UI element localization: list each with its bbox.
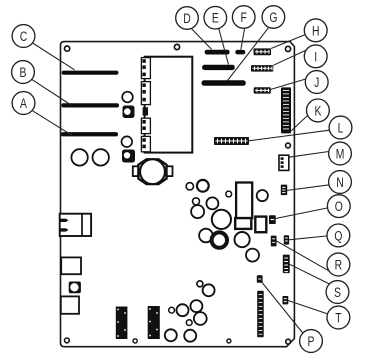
- capacitor ring c14: [246, 249, 259, 262]
- jumper N: [281, 185, 287, 196]
- socket tab on U1 left edge: [143, 107, 148, 115]
- leader line Q: [289, 236, 328, 240]
- jumper T: [283, 296, 289, 304]
- leader line H: [271, 35, 305, 49]
- svg-text:E: E: [212, 10, 219, 26]
- leader line A: [33, 111, 73, 136]
- callout E: [204, 6, 227, 29]
- connector B (bar): [61, 103, 119, 107]
- jumper P (small square): [257, 275, 263, 282]
- leader line T: [288, 301, 327, 314]
- leader line K: [291, 115, 308, 131]
- IC U1 (large rectangle): [145, 57, 193, 153]
- capacitor c12 (bold ring): [212, 232, 227, 247]
- capacitor ring c5: [226, 191, 232, 197]
- leader line C: [33, 43, 75, 70]
- LED (black square with hole): [69, 282, 81, 294]
- leader line D: [192, 29, 212, 50]
- leader line B: [32, 79, 71, 105]
- switch S2 (square): [61, 296, 79, 313]
- capacitor ring c4: [197, 180, 209, 192]
- jumper R (left of pair): [271, 236, 277, 247]
- callout H: [304, 19, 327, 42]
- battery holder base: [235, 218, 251, 229]
- callout J: [305, 71, 328, 94]
- svg-text:D: D: [183, 10, 191, 26]
- svg-text:B: B: [20, 64, 27, 80]
- capacitor ring b6: [194, 312, 207, 325]
- jumper O: [269, 215, 276, 224]
- capacitor ring c7: [193, 198, 200, 205]
- capacitor ring b9: [184, 330, 196, 342]
- socket strip 2 on U1 left edge: [141, 82, 150, 105]
- capacitor ring c11: [199, 229, 213, 243]
- svg-text:G: G: [269, 9, 277, 25]
- leader line O: [276, 208, 328, 219]
- leader line J: [271, 79, 307, 90]
- svg-text:A: A: [20, 95, 28, 111]
- leader line N: [287, 185, 330, 191]
- svg-text:M: M: [336, 146, 345, 162]
- callout K: [307, 99, 330, 122]
- via v1: [227, 339, 231, 343]
- connector C (bar): [62, 71, 119, 75]
- svg-text:N: N: [336, 174, 343, 190]
- socket strip 4 on U1 left edge: [141, 136, 150, 151]
- DC power jack: [60, 214, 92, 236]
- leader line P: [262, 283, 303, 334]
- capacitor ring c8: [206, 197, 218, 209]
- svg-text:P: P: [308, 333, 315, 349]
- svg-text:T: T: [335, 310, 342, 326]
- IC U2 (black chip): [116, 307, 128, 340]
- relay (small thick rect): [255, 217, 266, 233]
- connector M (3-pin fan header): [279, 155, 289, 170]
- mounting hole mid-right: [286, 143, 291, 148]
- capacitor ring near A: [122, 136, 133, 147]
- leader line I: [273, 50, 306, 65]
- callout I: [304, 45, 327, 68]
- socket strip 1 on U1 left edge: [141, 58, 150, 79]
- capacitor ring b3: [169, 307, 175, 313]
- capacitor C1 (large ring): [71, 149, 87, 165]
- capacitor ring b1: [197, 281, 203, 287]
- header S (vertical): [283, 255, 290, 274]
- svg-text:F: F: [241, 9, 248, 25]
- callout T: [327, 306, 350, 329]
- header P2 (vertical pin strip): [257, 291, 264, 337]
- svg-text:R: R: [335, 257, 343, 273]
- leader line M: [289, 152, 329, 158]
- board outline: [61, 42, 295, 347]
- callout M: [329, 142, 352, 165]
- svg-text:S: S: [334, 284, 341, 300]
- capacitor ring b2: [203, 284, 215, 296]
- header I: [251, 65, 273, 72]
- svg-text:O: O: [335, 199, 343, 215]
- callout B: [12, 61, 35, 84]
- svg-text:K: K: [314, 103, 322, 119]
- leader line S: [289, 264, 329, 284]
- diode D1 (black square with hole): [123, 106, 135, 119]
- crystal Y1 (octagon socket): [133, 159, 173, 184]
- leader line R: [276, 241, 330, 272]
- mounting hole top-right: [285, 46, 290, 51]
- svg-text:C: C: [20, 28, 28, 44]
- socket strip 3 on U1 left edge: [141, 118, 150, 133]
- svg-text:Q: Q: [334, 228, 342, 244]
- callout P: [300, 330, 323, 353]
- mounting hole bottom-right: [286, 339, 291, 344]
- capacitor ring c6: [257, 190, 268, 201]
- callout F: [232, 6, 255, 29]
- capacitor ring b7: [186, 320, 192, 326]
- capacitor ring b4: [177, 304, 189, 316]
- jumper Q (right of pair): [284, 235, 289, 244]
- capacitor ring c3: [186, 183, 193, 190]
- connector G (bar): [202, 80, 246, 86]
- capacitor ring b5: [190, 300, 202, 312]
- battery holder (tall rectangle): [236, 183, 252, 219]
- header L: [214, 137, 249, 145]
- capacitor ring near B: [122, 92, 133, 103]
- capacitor ring c9: [191, 205, 204, 218]
- leader line G: [228, 28, 269, 81]
- leader line F: [241, 28, 245, 49]
- connector D (bar): [205, 50, 230, 55]
- callout C: [12, 25, 35, 48]
- callout Q: [327, 224, 350, 247]
- mounting hole bottom-left: [65, 338, 70, 343]
- svg-text:I: I: [314, 49, 317, 65]
- mounting hole top-middle: [174, 44, 179, 49]
- callout L: [329, 116, 352, 139]
- IC U3 (black chip): [148, 306, 160, 339]
- connector F (bar): [235, 50, 245, 55]
- callout A: [12, 92, 35, 115]
- via v2: [133, 339, 137, 343]
- svg-text:H: H: [312, 23, 319, 39]
- leader line L: [249, 130, 329, 141]
- capacitor ring c10: [212, 210, 231, 229]
- capacitor ring b8: [165, 329, 177, 341]
- header J: [254, 87, 271, 93]
- connector E (bar): [202, 65, 235, 70]
- callout S: [326, 281, 349, 304]
- svg-text:L: L: [338, 120, 344, 136]
- connector K (vertical header): [281, 87, 291, 133]
- callout D: [176, 7, 199, 30]
- capacitor C2 (large ring): [93, 149, 109, 165]
- callout O: [327, 195, 350, 218]
- connector A (bar): [61, 132, 118, 136]
- switch S1 (square): [61, 257, 81, 274]
- leader line E: [219, 29, 229, 65]
- mounting hole top-left: [65, 46, 70, 51]
- header H: [254, 48, 272, 55]
- callout R: [327, 253, 350, 276]
- callout N: [329, 171, 352, 194]
- capacitor ring c13: [235, 232, 250, 247]
- callout G: [262, 6, 285, 29]
- svg-text:J: J: [314, 74, 319, 90]
- diode D2 (black square with hole): [122, 150, 135, 163]
